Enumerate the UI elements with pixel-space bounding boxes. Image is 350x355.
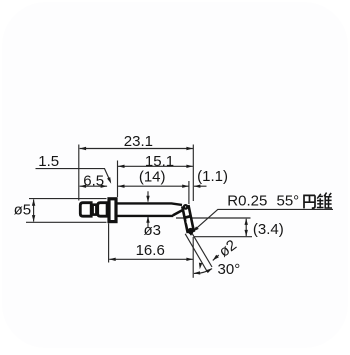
wire: leader R0.25 [193, 209, 333, 231]
arrowhead 23.1 left [80, 147, 87, 150]
arrowhead 16.6 right [186, 258, 193, 261]
svg-text:15.1: 15.1 [145, 153, 174, 170]
arrowhead o2 leader [213, 255, 219, 261]
arrowhead 23.1 right [186, 147, 193, 150]
wire: 30 degree arc [194, 269, 212, 274]
wire: extension line left end of probe [78, 145, 80, 201]
wire: o3 leader top [147, 191, 149, 201]
wire: tail of dimension (1.1) [194, 185, 207, 187]
arrowhead 6.5 left [80, 185, 87, 188]
cap ridge 1 [80, 203, 91, 217]
arrowhead 1.1 right [194, 185, 201, 188]
wire: leader line for 1.5 [36, 169, 111, 182]
arrowhead R0.25 leader [192, 227, 199, 232]
arrowhead 3.4 top [245, 218, 248, 225]
kanji EN (circle) of ENSUI [303, 195, 315, 208]
wire: dimension line 6.5 [80, 185, 108, 187]
arrowhead 15.1 left [118, 165, 125, 168]
wire: o3 leader bottom [147, 217, 149, 228]
arrowhead o5 top [32, 199, 35, 206]
knob [184, 205, 188, 209]
wire: dimension line (3.4) [245, 219, 247, 236]
arrowhead o3 top [146, 196, 149, 203]
cone tip ball [188, 228, 194, 234]
wire: extension line (3.4) bottom [195, 236, 253, 238]
arrowhead o5 bottom [32, 215, 35, 222]
arrowhead 15.1 right [186, 165, 193, 168]
holder barrel mid rib [184, 216, 191, 218]
arrowhead arc left [194, 271, 201, 274]
wire: extension line below ball [192, 237, 194, 278]
arrowhead 16.6 left [109, 258, 116, 261]
wire: extension line o5 bottom [26, 221, 107, 223]
svg-text:30°: 30° [218, 261, 241, 278]
arrowhead o3 bottom [146, 216, 149, 223]
cap neck [93, 205, 97, 215]
svg-text:1.5: 1.5 [38, 153, 59, 170]
wire: dimension line 23.1 [80, 148, 193, 150]
svg-text:16.6: 16.6 [136, 242, 165, 259]
holder shoulder [173, 210, 184, 216]
arrowhead 14 right [182, 185, 189, 188]
wire: stylus rod extension left [185, 234, 206, 271]
stylus body [80, 199, 194, 235]
svg-text:(3.4): (3.4) [253, 221, 284, 238]
cap ridge 2 [98, 203, 107, 217]
shaft [116, 203, 182, 216]
arrowhead 6.5 right [101, 185, 108, 188]
wire: dimension line o5 [33, 199, 35, 221]
wire: leader o2 [213, 255, 219, 260]
wire: extension line knob right tangent [188, 181, 190, 204]
wire: extension line flange right face [117, 161, 119, 198]
wire: extension line flange left face lower [108, 223, 110, 262]
svg-text:55°: 55° [277, 192, 300, 209]
svg-text:R0.25: R0.25 [227, 192, 267, 209]
svg-text:(1.1): (1.1) [197, 168, 228, 185]
holder barrel white slot [187, 221, 190, 227]
arrowhead 14 left [118, 185, 125, 188]
wire: dimension line 16.6 [109, 258, 193, 260]
wire: dimension line 15.1 [118, 165, 193, 167]
svg-text:6.5: 6.5 [83, 172, 104, 189]
wire: extension line (3.4) top [176, 217, 251, 219]
svg-text:(14): (14) [139, 168, 166, 185]
svg-text:ø5: ø5 [14, 201, 32, 218]
wire: extension line o5 top [29, 198, 107, 200]
holder barrel [183, 206, 194, 232]
kanji SUI (cone) of ENSUI [317, 193, 332, 209]
wire: dimension line (14) [118, 185, 189, 187]
wire: stylus rod extension right [191, 231, 212, 267]
svg-text:23.1: 23.1 [124, 133, 153, 150]
flange [109, 199, 116, 222]
arrowhead 3.4 bottom [245, 230, 248, 237]
arrowhead rod end [199, 263, 202, 270]
arrowhead arc right [206, 268, 213, 273]
svg-text:ø3: ø3 [143, 222, 161, 239]
wire: extension line right contact tangent (upper) [192, 145, 194, 202]
label texts [14, 133, 300, 278]
arrowhead 1.5 leader [107, 177, 111, 184]
